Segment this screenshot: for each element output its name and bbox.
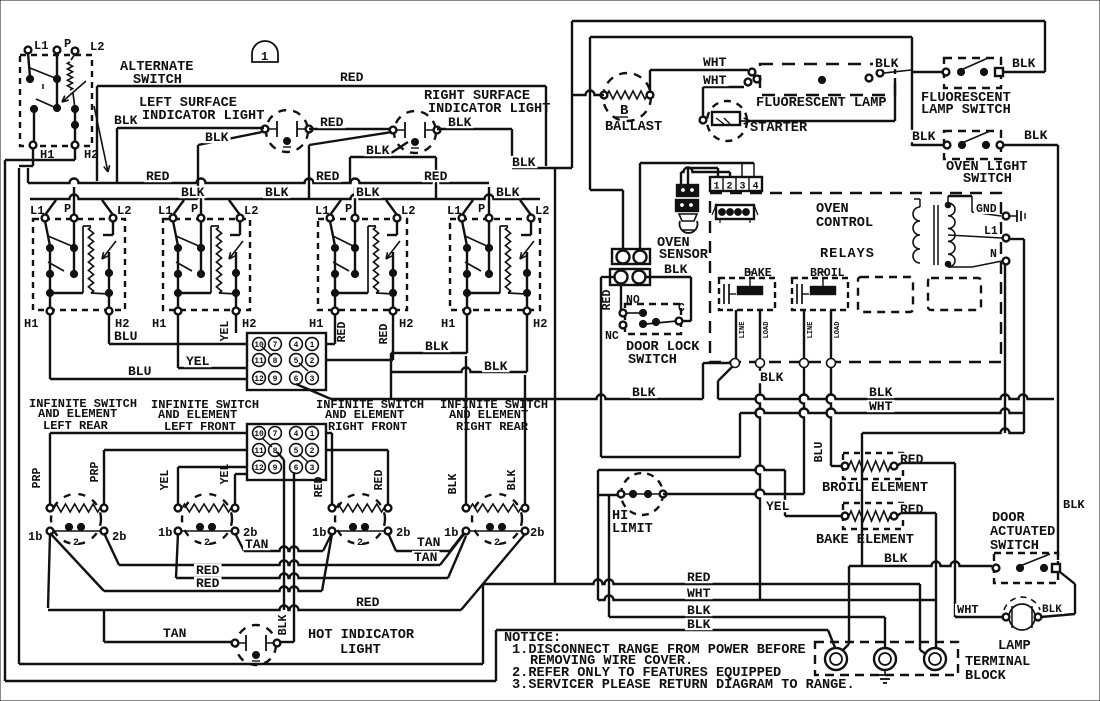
svg-text:BLK: BLK xyxy=(1024,128,1048,143)
svg-text:WHT: WHT xyxy=(957,603,979,617)
svg-text:L2: L2 xyxy=(244,204,258,218)
svg-text:L1: L1 xyxy=(315,204,329,218)
svg-text:BROIL: BROIL xyxy=(810,267,845,280)
svg-text:FLUORESCENT LAMP: FLUORESCENT LAMP xyxy=(756,96,887,111)
svg-text:WHT: WHT xyxy=(687,586,711,601)
svg-text:PRP: PRP xyxy=(31,468,44,489)
svg-text:H1: H1 xyxy=(152,317,166,331)
svg-text:L2: L2 xyxy=(535,204,549,218)
svg-text:BLK: BLK xyxy=(205,130,229,145)
svg-text:RED: RED xyxy=(900,502,924,517)
svg-text:1: 1 xyxy=(310,341,315,350)
svg-text:1b: 1b xyxy=(28,530,42,544)
svg-text:BLK: BLK xyxy=(1063,498,1085,512)
svg-text:RED: RED xyxy=(424,169,448,184)
svg-text:YEL: YEL xyxy=(186,354,210,369)
svg-text:BLK: BLK xyxy=(484,359,508,374)
svg-text:HOT INDICATOR: HOT INDICATOR xyxy=(308,628,415,643)
svg-text:BLK: BLK xyxy=(632,385,656,400)
svg-text:7: 7 xyxy=(273,430,278,439)
svg-text:ACTUATED: ACTUATED xyxy=(990,525,1055,540)
svg-text:2: 2 xyxy=(310,447,315,456)
svg-text:RED: RED xyxy=(378,324,391,345)
svg-text:2: 2 xyxy=(310,357,315,366)
svg-text:H1: H1 xyxy=(24,317,38,331)
svg-text:2b: 2b xyxy=(530,526,544,540)
svg-text:BLK: BLK xyxy=(506,470,519,491)
svg-text:L1: L1 xyxy=(158,204,172,218)
svg-text:H2: H2 xyxy=(242,317,256,331)
svg-text:TAN: TAN xyxy=(245,537,268,552)
svg-text:P: P xyxy=(191,202,198,216)
svg-text:RED: RED xyxy=(373,470,386,491)
svg-text:RED: RED xyxy=(687,570,711,585)
svg-text:SWITCH: SWITCH xyxy=(963,172,1012,187)
svg-text:BLK: BLK xyxy=(912,129,936,144)
svg-text:L1: L1 xyxy=(34,39,48,53)
svg-text:LOAD: LOAD xyxy=(834,322,842,339)
svg-text:1: 1 xyxy=(713,182,719,193)
svg-text:YEL: YEL xyxy=(159,470,172,491)
svg-text:3.SERVICER PLEASE RETURN DIAGR: 3.SERVICER PLEASE RETURN DIAGRAM TO RANG… xyxy=(512,678,855,693)
svg-text:P: P xyxy=(478,202,485,216)
svg-text:BLU: BLU xyxy=(813,442,826,463)
svg-text:BLK: BLK xyxy=(512,155,536,170)
svg-text:6: 6 xyxy=(294,375,299,384)
svg-text:LEFT REAR: LEFT REAR xyxy=(43,419,109,433)
svg-text:H1: H1 xyxy=(309,317,323,331)
svg-text:WHT: WHT xyxy=(703,55,727,70)
svg-text:INDICATOR LIGHT: INDICATOR LIGHT xyxy=(428,102,550,117)
svg-text:YEL: YEL xyxy=(766,499,790,514)
svg-text:DOOR: DOOR xyxy=(992,511,1025,526)
svg-text:3: 3 xyxy=(739,182,745,193)
svg-text:NO: NO xyxy=(626,294,640,307)
svg-text:10: 10 xyxy=(254,341,264,350)
svg-text:4: 4 xyxy=(294,430,299,439)
svg-text:BLK: BLK xyxy=(366,143,390,158)
svg-text:LOAD: LOAD xyxy=(763,322,771,339)
svg-text:BLK: BLK xyxy=(875,56,899,71)
svg-text:9: 9 xyxy=(273,375,278,384)
svg-text:12: 12 xyxy=(254,375,264,384)
svg-text:9: 9 xyxy=(273,464,278,473)
svg-text:BLK: BLK xyxy=(1012,56,1036,71)
svg-text:SWITCH: SWITCH xyxy=(628,353,677,368)
svg-text:H1: H1 xyxy=(441,317,455,331)
svg-text:7: 7 xyxy=(273,341,278,350)
svg-text:4: 4 xyxy=(294,341,299,350)
svg-text:4: 4 xyxy=(752,182,758,193)
svg-text:5: 5 xyxy=(294,447,299,456)
svg-text:BLK: BLK xyxy=(356,185,380,200)
svg-text:1b: 1b xyxy=(444,526,458,540)
svg-text:2: 2 xyxy=(204,538,210,549)
svg-text:H2: H2 xyxy=(399,317,413,331)
svg-text:P: P xyxy=(64,202,71,216)
svg-text:LAMP SWITCH: LAMP SWITCH xyxy=(921,103,1011,118)
svg-text:BLK: BLK xyxy=(760,370,784,385)
svg-text:LAMP: LAMP xyxy=(998,639,1031,654)
svg-text:1: 1 xyxy=(310,430,315,439)
svg-text:BLK: BLK xyxy=(448,115,472,130)
svg-text:N: N xyxy=(990,248,997,261)
svg-text:P: P xyxy=(345,202,352,216)
svg-text:1: 1 xyxy=(261,50,268,64)
svg-text:RED: RED xyxy=(320,115,344,130)
svg-text:YEL: YEL xyxy=(219,464,232,485)
svg-text:BLK: BLK xyxy=(869,385,893,400)
svg-text:L1: L1 xyxy=(30,204,44,218)
svg-text:2: 2 xyxy=(494,538,500,549)
svg-text:GND: GND xyxy=(976,203,997,216)
svg-text:BLK: BLK xyxy=(265,185,289,200)
svg-text:BLU: BLU xyxy=(128,364,151,379)
svg-text:BLK: BLK xyxy=(687,617,711,632)
svg-text:TAN: TAN xyxy=(414,550,437,565)
svg-text:STARTER: STARTER xyxy=(750,121,808,136)
svg-text:11: 11 xyxy=(254,447,264,456)
svg-text:6: 6 xyxy=(294,464,299,473)
svg-text:LIMIT: LIMIT xyxy=(612,522,653,537)
svg-text:RELAYS: RELAYS xyxy=(820,247,875,262)
svg-text:BLK: BLK xyxy=(114,113,138,128)
svg-text:LINE: LINE xyxy=(807,322,815,339)
svg-text:RED: RED xyxy=(196,576,220,591)
svg-text:8: 8 xyxy=(273,357,278,366)
svg-text:2: 2 xyxy=(73,538,79,549)
svg-text:RED: RED xyxy=(356,595,380,610)
svg-text:RED: RED xyxy=(146,169,170,184)
svg-text:TERMINAL: TERMINAL xyxy=(965,655,1030,670)
svg-text:INDICATOR LIGHT: INDICATOR LIGHT xyxy=(142,109,264,124)
svg-text:RED: RED xyxy=(313,477,326,498)
svg-text:BLK: BLK xyxy=(664,262,688,277)
svg-text:2b: 2b xyxy=(112,530,126,544)
svg-text:RIGHT FRONT: RIGHT FRONT xyxy=(328,420,407,434)
svg-text:5: 5 xyxy=(294,357,299,366)
svg-text:BAKE ELEMENT: BAKE ELEMENT xyxy=(816,533,914,548)
svg-text:1b: 1b xyxy=(158,526,172,540)
svg-text:RED: RED xyxy=(601,290,614,311)
svg-text:L2: L2 xyxy=(401,204,415,218)
svg-text:H2: H2 xyxy=(533,317,547,331)
svg-text:BLK: BLK xyxy=(447,474,460,495)
svg-text:BLK: BLK xyxy=(884,551,908,566)
svg-text:L1: L1 xyxy=(447,204,461,218)
svg-text:SENSOR: SENSOR xyxy=(659,248,709,263)
svg-text:PRP: PRP xyxy=(89,462,102,483)
svg-text:LINE: LINE xyxy=(739,322,747,339)
svg-text:CONTROL: CONTROL xyxy=(816,216,873,231)
svg-text:TAN: TAN xyxy=(163,626,186,641)
svg-text:BALLAST: BALLAST xyxy=(605,120,662,135)
svg-text:SWITCH: SWITCH xyxy=(990,539,1039,554)
svg-text:2b: 2b xyxy=(396,526,410,540)
svg-text:L2: L2 xyxy=(90,40,104,54)
svg-text:BLOCK: BLOCK xyxy=(965,669,1007,684)
svg-text:BLK: BLK xyxy=(181,185,205,200)
svg-text:YEL: YEL xyxy=(219,321,232,342)
svg-text:12: 12 xyxy=(254,464,264,473)
svg-text:TAN: TAN xyxy=(417,535,440,550)
svg-text:RED: RED xyxy=(336,322,349,343)
svg-text:L2: L2 xyxy=(117,204,131,218)
svg-text:BLK: BLK xyxy=(1042,604,1062,616)
svg-text:11: 11 xyxy=(254,357,264,366)
svg-text:LIGHT: LIGHT xyxy=(340,643,381,658)
svg-text:WHT: WHT xyxy=(703,73,727,88)
svg-text:3: 3 xyxy=(310,375,315,384)
svg-text:BLK: BLK xyxy=(687,603,711,618)
svg-text:P: P xyxy=(64,37,71,51)
svg-text:BLK: BLK xyxy=(425,339,449,354)
svg-text:2: 2 xyxy=(726,182,732,193)
svg-text:BLU: BLU xyxy=(114,329,137,344)
svg-text:BLK: BLK xyxy=(496,185,520,200)
svg-text:BAKE: BAKE xyxy=(744,267,772,280)
svg-text:BLK: BLK xyxy=(277,615,290,636)
svg-text:RED: RED xyxy=(340,70,364,85)
svg-text:BROIL ELEMENT: BROIL ELEMENT xyxy=(822,481,928,496)
svg-text:3: 3 xyxy=(310,464,315,473)
svg-text:L1: L1 xyxy=(984,225,998,238)
svg-text:OVEN: OVEN xyxy=(816,202,849,217)
svg-text:WHT: WHT xyxy=(869,399,893,414)
svg-text:RED: RED xyxy=(900,452,924,467)
svg-text:8: 8 xyxy=(273,447,278,456)
svg-text:C: C xyxy=(678,302,685,315)
svg-text:RED: RED xyxy=(316,169,340,184)
svg-text:NC: NC xyxy=(605,330,619,343)
svg-text:1b: 1b xyxy=(312,526,326,540)
svg-text:2: 2 xyxy=(357,538,363,549)
